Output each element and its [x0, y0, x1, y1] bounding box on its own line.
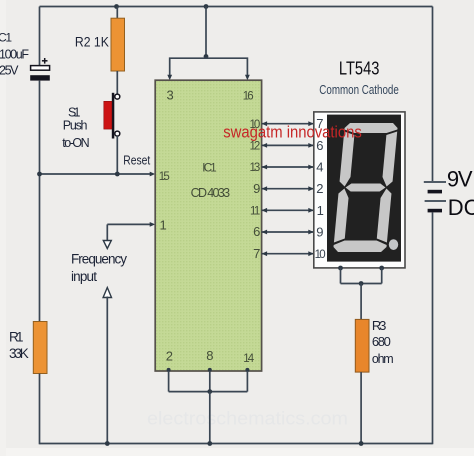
svg-text:3: 3: [167, 87, 174, 102]
svg-text:LT543: LT543: [339, 58, 380, 78]
svg-text:2: 2: [316, 181, 323, 196]
frequency input terminal arrow up: [103, 288, 111, 298]
node left rail reset: [37, 172, 42, 177]
wire segment bus 3 (IC13 to disp4): [262, 165, 314, 170]
IC bottom pin 2 stub: [167, 368, 171, 392]
svg-text:680: 680: [372, 334, 391, 349]
node top rail to IC supply: [204, 4, 209, 9]
svg-text:6: 6: [253, 224, 260, 239]
wire S1 to reset node: [116, 136, 118, 174]
wire right rail upper (top rail to battery): [432, 7, 434, 182]
svg-text:100uF: 100uF: [0, 47, 29, 61]
svg-text:1: 1: [160, 218, 167, 233]
wire left rail upper (top rail to C1): [39, 7, 41, 67]
svg-text:7: 7: [253, 246, 260, 261]
wire left rail lower (R1 to bottom rail): [39, 374, 41, 445]
IC pin numbers top: [167, 87, 254, 102]
node frequency bottom rail: [105, 441, 110, 446]
svg-text:33K: 33K: [9, 346, 29, 361]
svg-text:9V: 9V: [447, 166, 473, 191]
svg-text:R1: R1: [9, 330, 24, 345]
svg-text:1: 1: [317, 203, 324, 218]
svg-text:R2 1K: R2 1K: [75, 33, 110, 49]
svg-text:11: 11: [250, 205, 260, 217]
wire top rail: [40, 6, 433, 8]
wire segment bus 6 (IC6 to disp9): [262, 230, 314, 235]
wire pin1 drop: [106, 224, 108, 240]
pin 15 arrowhead: [150, 172, 156, 177]
node top rail to R2: [114, 4, 119, 9]
display pin numbers: [315, 116, 326, 261]
node R3 bottom rail: [359, 441, 364, 446]
svg-text:4: 4: [316, 160, 323, 175]
svg-text:16: 16: [243, 90, 254, 102]
wire segment bus 5 (IC11 to disp1): [262, 208, 314, 213]
svg-text:8: 8: [206, 348, 213, 363]
switch S1: [104, 93, 120, 139]
svg-text:ohm: ohm: [372, 352, 394, 366]
wire right rail lower (battery to bottom rail): [432, 213, 434, 445]
svg-text:14: 14: [243, 353, 255, 365]
svg-text:to-ON: to-ON: [62, 136, 89, 150]
node cathode tie: [359, 281, 364, 286]
svg-text:10: 10: [315, 249, 326, 261]
wire IC ground drop: [209, 392, 211, 444]
label R3 680 ohm: [372, 318, 394, 366]
frequency input terminal arrow down: [103, 241, 111, 249]
label Frequency input: [71, 251, 127, 284]
label C1 100uF 25V: [0, 30, 29, 77]
display black face: [327, 115, 401, 262]
IC U1 CD4033 body: [155, 80, 261, 371]
svg-text:C1: C1: [0, 30, 12, 44]
svg-text:Frequency: Frequency: [71, 251, 127, 266]
wire display cathode tie: [341, 283, 382, 285]
wire supply bracket: [170, 58, 248, 76]
svg-text:15: 15: [159, 171, 170, 183]
svg-text:Push: Push: [63, 119, 88, 133]
wire bottom rail: [40, 443, 433, 445]
wire supply drop: [205, 7, 207, 59]
svg-text:Common Cathode: Common Cathode: [319, 82, 399, 97]
wire bottom pins tie: [169, 391, 248, 393]
pin 3 arrowhead: [167, 75, 172, 81]
svg-text:2: 2: [166, 349, 173, 364]
wire R3 to bottom rail: [360, 372, 362, 444]
battery B1 9V: [424, 182, 446, 211]
display bottom pin b: [379, 266, 384, 284]
capacitor C1: [30, 58, 50, 81]
node IC ground bottom rail: [207, 441, 212, 446]
svg-text:9: 9: [316, 225, 323, 240]
svg-text:25V: 25V: [0, 64, 19, 78]
wire left rail middle (C1 to R1): [39, 81, 41, 322]
wire segment bus 7 (IC7 to disp10): [262, 251, 314, 256]
node S1 reset junction: [115, 172, 120, 177]
wire R2 top stub: [116, 7, 118, 19]
svg-text:DC: DC: [448, 195, 474, 220]
decimal point: [389, 239, 398, 250]
svg-text:swagatm innovations: swagatm innovations: [223, 123, 362, 142]
wire frequency input to bottom rail: [106, 297, 108, 445]
IC bottom pin 8 stub: [208, 368, 212, 392]
7-segment digit 8: [333, 123, 398, 252]
IC bottom pin 14 stub: [245, 368, 249, 392]
svg-text:S1: S1: [68, 105, 81, 119]
wire reset line (left rail to IC pin 15): [40, 173, 151, 175]
resistor R2: [111, 18, 125, 71]
resistor R3: [355, 319, 369, 372]
svg-text:IC1: IC1: [202, 163, 217, 175]
svg-text:12: 12: [250, 141, 261, 153]
IC pin numbers bottom: [166, 348, 255, 365]
display DS1 LT543 frame: [314, 112, 405, 268]
resistor R1: [33, 322, 47, 374]
label 9V DC: [447, 166, 474, 220]
pin 1 arrowhead: [150, 222, 156, 227]
node bottom tie: [207, 389, 212, 394]
pin 16 arrowhead: [245, 75, 250, 81]
wire cathode to R3: [360, 284, 362, 320]
svg-text:electroschematics.com: electroschematics.com: [147, 408, 348, 429]
IC pin numbers left: [159, 171, 170, 233]
label IC1 CD 4033: [191, 163, 231, 200]
svg-text:CD 4033: CD 4033: [191, 186, 231, 200]
wire segment bus 2 (IC12 to disp6): [262, 143, 314, 148]
wire segment bus 4 (IC9 to disp2): [262, 186, 314, 191]
svg-text:13: 13: [250, 162, 261, 174]
label R1 33K: [9, 330, 29, 361]
node supply bracket: [204, 54, 209, 59]
svg-text:9: 9: [253, 181, 260, 196]
label S1 Push to-ON: [62, 105, 89, 150]
svg-text:R3: R3: [372, 318, 387, 333]
display bottom pin a: [338, 266, 343, 284]
IC pin numbers right: [250, 119, 261, 261]
svg-text:input: input: [71, 269, 97, 284]
wire pin1 horizontal: [107, 223, 150, 225]
wire segment bus 1 (IC10 to disp7): [262, 121, 314, 126]
wire R2 to S1: [116, 71, 118, 94]
svg-text:Reset: Reset: [123, 153, 150, 167]
